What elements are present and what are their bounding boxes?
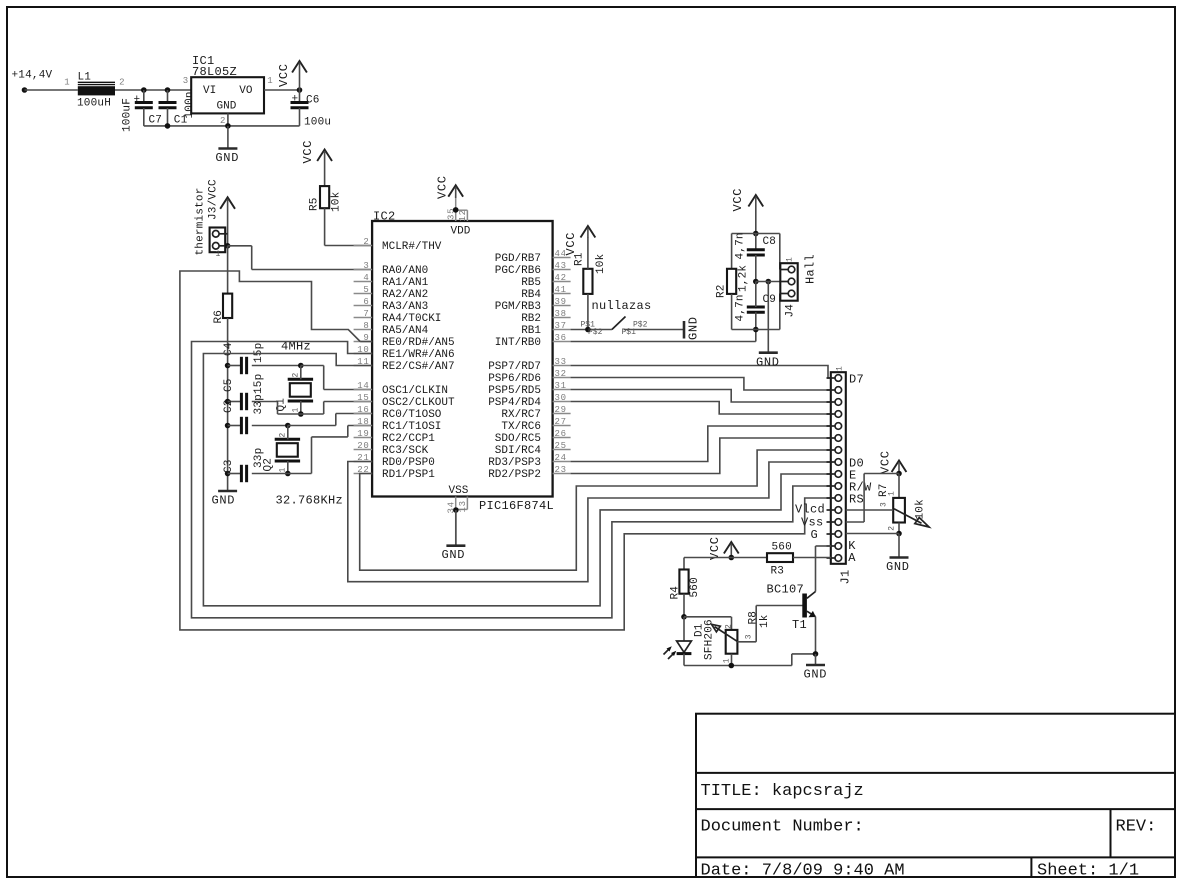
svg-text:C6: C6 — [306, 95, 320, 107]
svg-text:42: 42 — [555, 273, 567, 283]
wire net RE0 pin9 staircase to J1 RS — [180, 271, 831, 630]
junction VCC backlight — [729, 555, 735, 561]
wire R4 bottom to R8 top — [684, 616, 731, 618]
node +14,4V input terminal — [22, 87, 28, 93]
wire PSP5 pin31 to J1 D5 — [571, 390, 831, 403]
J1 pin 11 — [835, 495, 842, 502]
J1 pin 13 — [835, 519, 842, 526]
svg-text:10k: 10k — [331, 191, 343, 212]
IC2 pin 19 RC2/CCP1 — [354, 437, 373, 439]
IC2 pin 11 RE2/CS#/AN7 — [354, 365, 373, 367]
svg-text:R6: R6 — [213, 310, 225, 324]
svg-text:L1: L1 — [78, 72, 92, 84]
svg-text:Vlcd: Vlcd — [795, 503, 825, 517]
svg-text:1: 1 — [836, 366, 845, 371]
svg-text:33: 33 — [555, 357, 567, 367]
svg-text:3: 3 — [183, 76, 189, 86]
svg-text:RD3/PSP3: RD3/PSP3 — [488, 457, 541, 469]
resistor R6 — [223, 294, 232, 318]
svg-text:560: 560 — [689, 577, 701, 597]
IC2 pin 27 TX/RC6 — [553, 425, 571, 427]
IC2 pin 33 PSP7/RD7 — [553, 365, 571, 367]
junction R1/RB1 — [585, 327, 591, 333]
svg-text:INT/RB0: INT/RB0 — [495, 337, 541, 349]
wire VCC rail to R3 — [684, 557, 767, 559]
capacitor C1 100n — [167, 90, 169, 102]
VCC symbol above R1 — [581, 226, 596, 238]
junction J3 pin2 — [225, 243, 231, 249]
svg-text:26: 26 — [555, 429, 567, 439]
net label J3/VCC with arrow — [220, 197, 235, 209]
svg-text:VCC: VCC — [301, 140, 315, 164]
wire IC1 VO to C6/VCC node — [264, 89, 300, 91]
IC2 pin 32 PSP6/RD6 — [553, 377, 571, 379]
svg-text:RA5/AN4: RA5/AN4 — [382, 325, 429, 337]
J1 pin 7 — [835, 447, 842, 454]
svg-text:2: 2 — [888, 526, 897, 531]
svg-text:RB1: RB1 — [521, 325, 541, 337]
svg-text:10k: 10k — [595, 253, 607, 274]
IC2 pin 42 RB5 — [553, 281, 571, 283]
resistor R5 10k — [320, 186, 329, 208]
svg-text:1k: 1k — [759, 614, 771, 628]
svg-text:VO: VO — [239, 85, 253, 97]
svg-text:1: 1 — [64, 78, 70, 88]
svg-text:P$2: P$2 — [588, 328, 603, 337]
IC2 pin 8 RA5/AN4 — [354, 329, 373, 331]
svg-text:P$1: P$1 — [622, 328, 637, 337]
svg-text:RC3/SCK: RC3/SCK — [382, 445, 429, 457]
svg-text:RA4/T0CKI: RA4/T0CKI — [382, 313, 441, 325]
J1 pin 10 — [835, 483, 842, 490]
svg-text:PSP4/RD4: PSP4/RD4 — [488, 397, 541, 409]
svg-text:Date: 7/8/09 9:40 AM: Date: 7/8/09 9:40 AM — [701, 862, 905, 881]
IC2 pin 38 RB2 — [553, 317, 571, 319]
svg-text:4: 4 — [363, 273, 369, 283]
capacitor C8 4,7n — [755, 234, 757, 250]
svg-text:PIC16F874L: PIC16F874L — [479, 499, 554, 513]
resistor R4 560 — [683, 558, 685, 570]
svg-text:OSC1/CLKIN: OSC1/CLKIN — [382, 385, 448, 397]
svg-text:1: 1 — [723, 658, 732, 663]
svg-text:36: 36 — [555, 333, 567, 343]
J1 pin 1 — [835, 375, 842, 382]
IC2 pin 5 RA2/AN2 — [354, 293, 373, 295]
svg-text:12: 12 — [458, 209, 468, 221]
wire bottom rail D1/R8 — [684, 665, 792, 667]
capacitor C3 33p — [228, 473, 242, 475]
capacitor C9 4,7n — [747, 306, 765, 309]
svg-text:33p: 33p — [253, 448, 265, 468]
VCC symbol backlight — [724, 542, 739, 554]
svg-text:VCC: VCC — [436, 175, 450, 199]
wire PSP7 pin33 to J1 D7 — [571, 366, 831, 379]
svg-text:C5: C5 — [223, 378, 235, 392]
IC2 pin 4 RA1/AN1 — [354, 281, 373, 283]
J1 pin 4 — [835, 411, 842, 418]
IC2 pin 2 MCLR#/THV — [354, 245, 373, 247]
svg-text:C8: C8 — [763, 236, 777, 248]
svg-text:2: 2 — [220, 116, 226, 126]
svg-text:43: 43 — [555, 261, 567, 271]
VCC symbol hall — [748, 195, 763, 207]
svg-text:RD1/PSP1: RD1/PSP1 — [382, 469, 435, 481]
svg-text:2: 2 — [119, 78, 125, 88]
svg-text:R1: R1 — [574, 252, 586, 266]
svg-text:OSC2/CLKOUT: OSC2/CLKOUT — [382, 397, 455, 409]
IC2 pin 3 RA0/AN0 — [354, 269, 373, 271]
wire J1 K to T1 collector — [816, 545, 831, 547]
VCC symbol above R7 — [892, 461, 907, 473]
wire RD2 pin23 to J1 D2 — [571, 438, 831, 474]
wire C5 jog to Q1 bottom row — [277, 402, 279, 415]
svg-text:C7: C7 — [149, 115, 163, 127]
svg-text:thermistor: thermistor — [195, 187, 207, 255]
svg-text:A: A — [848, 551, 856, 565]
wire RB1 pin37 to switch — [571, 329, 612, 331]
J1 pin 9 — [835, 471, 842, 478]
svg-text:32.768KHz: 32.768KHz — [276, 494, 344, 508]
junction hall mid node — [753, 279, 759, 285]
svg-text:PSP6/RD6: PSP6/RD6 — [488, 373, 541, 385]
svg-text:PGM/RB3: PGM/RB3 — [495, 301, 541, 313]
svg-text:PGC/RB6: PGC/RB6 — [495, 265, 541, 277]
J1 pin 3 — [835, 399, 842, 406]
wire hall bottom node — [732, 329, 780, 331]
wire R5 to MCLR pin 2 — [324, 208, 326, 245]
svg-text:100u: 100u — [304, 117, 331, 129]
wire J3 pin2 to RA0 pin 3 — [228, 245, 252, 247]
svg-text:33p: 33p — [253, 394, 265, 414]
svg-text:32: 32 — [555, 369, 567, 379]
svg-text:15: 15 — [357, 393, 369, 403]
svg-text:RX/RC7: RX/RC7 — [501, 409, 541, 421]
svg-text:GND: GND — [217, 101, 237, 113]
svg-text:2: 2 — [725, 624, 734, 629]
svg-text:2: 2 — [292, 373, 301, 378]
junction GND stem — [225, 123, 231, 129]
junction R7 pin2/G — [896, 531, 902, 537]
J1 pin 14 — [835, 531, 842, 538]
IC2 pin 6 RA3/AN3 — [354, 305, 373, 307]
svg-text:VSS: VSS — [449, 485, 469, 497]
photodiode D1 SFH206 — [683, 617, 685, 641]
svg-text:15p: 15p — [253, 374, 265, 394]
svg-text:IC2: IC2 — [373, 210, 396, 224]
svg-text:24: 24 — [555, 453, 567, 463]
svg-text:5: 5 — [363, 285, 369, 295]
svg-text:RE1/WR#/AN6: RE1/WR#/AN6 — [382, 349, 455, 361]
IC2 pin 43 PGC/RB6 — [553, 269, 571, 271]
transistor T1 BC107 — [802, 594, 807, 618]
svg-text:GND: GND — [212, 494, 236, 508]
J1 pin 15 — [835, 543, 842, 550]
svg-text:3: 3 — [880, 502, 889, 507]
J1 pin 6 — [835, 435, 842, 442]
wire Vss to VCC — [846, 521, 864, 523]
svg-text:RA3/AN3: RA3/AN3 — [382, 301, 428, 313]
IC2 pin 21 RD0/PSP0 — [354, 461, 373, 463]
resistor R2 1,2k — [731, 234, 733, 269]
ground symbol under R7 — [898, 534, 900, 558]
svg-text:PGD/RB7: PGD/RB7 — [495, 253, 541, 265]
ground symbol hall — [759, 351, 778, 354]
junction R7 VCC — [896, 471, 902, 477]
svg-text:VI: VI — [203, 85, 216, 97]
J1 pin 2 — [835, 387, 842, 394]
svg-text:3: 3 — [363, 261, 369, 271]
ground symbol crystal rail — [227, 490, 229, 493]
svg-text:R2: R2 — [716, 284, 728, 298]
ground stem hall — [767, 282, 769, 353]
svg-text:RE0/RD#/AN5: RE0/RD#/AN5 — [382, 337, 455, 349]
wire PSP4 pin30 to J1 D4 — [571, 402, 831, 415]
svg-text:1: 1 — [786, 257, 795, 262]
svg-text:RA2/AN2: RA2/AN2 — [382, 289, 428, 301]
svg-text:78L05Z: 78L05Z — [192, 65, 237, 79]
svg-text:100uH: 100uH — [77, 98, 111, 110]
connector J1 — [831, 372, 846, 564]
svg-text:J3/VCC: J3/VCC — [208, 179, 220, 220]
crystal Q1 — [288, 378, 313, 381]
J1 pin 12 — [835, 507, 842, 514]
svg-text:GND: GND — [886, 560, 910, 574]
svg-text:10k: 10k — [915, 499, 927, 520]
svg-text:MCLR#/THV: MCLR#/THV — [382, 241, 442, 253]
IC2 pin 24 RD3/PSP3 — [553, 461, 571, 463]
IC2 pin 23 RD2/PSP2 — [553, 473, 571, 475]
junction hall mid node 2 — [766, 279, 772, 285]
VCC symbol above R5 — [317, 150, 332, 162]
title block frame — [696, 714, 1175, 877]
J1 pin 8 — [835, 459, 842, 466]
svg-text:RB4: RB4 — [521, 289, 541, 301]
connector J3 — [210, 228, 226, 253]
IC2 pin 9 RE0/RD#/AN5 — [354, 341, 373, 343]
junction emitter/GND — [813, 651, 819, 657]
connector J4 Hall — [780, 263, 797, 301]
IC2 pin 36 INT/RB0 — [553, 341, 571, 343]
svg-text:J1: J1 — [839, 569, 853, 584]
svg-text:REV:: REV: — [1116, 818, 1157, 837]
svg-text:+: + — [134, 94, 141, 106]
trimmer R8 1k — [731, 617, 733, 630]
svg-text:VCC: VCC — [879, 450, 893, 474]
junction hall top node — [753, 231, 759, 237]
svg-text:560: 560 — [772, 542, 792, 554]
svg-text:Document Number:: Document Number: — [701, 818, 864, 837]
wire C4 row to OSC1 jog — [301, 365, 324, 367]
wire net RD1 pin22 to J1 D1 — [360, 450, 831, 570]
svg-text:RC2/CCP1: RC2/CCP1 — [382, 433, 435, 445]
svg-text:37: 37 — [555, 321, 567, 331]
IC2 pin 31 PSP5/RD5 — [553, 389, 571, 391]
wire J4 pin3 to bottom node — [779, 294, 781, 330]
svg-text:31: 31 — [555, 381, 567, 391]
svg-text:2: 2 — [363, 237, 369, 247]
svg-text:J4: J4 — [785, 304, 797, 318]
svg-text:1: 1 — [267, 76, 273, 86]
svg-text:30: 30 — [555, 393, 567, 403]
wire hall top node — [732, 233, 780, 235]
junction rail C3 — [225, 471, 231, 477]
IC1 78L05Z voltage regulator — [191, 77, 264, 113]
IC2 pin 10 RE1/WR#/AN6 — [354, 353, 373, 355]
svg-text:8: 8 — [363, 321, 369, 331]
svg-text:GND: GND — [215, 151, 239, 165]
svg-text:GND: GND — [804, 668, 828, 682]
wire ground rail under IC1 — [144, 125, 300, 127]
junction C7 top — [141, 87, 147, 93]
svg-text:C2: C2 — [223, 399, 235, 413]
svg-text:TX/RC6: TX/RC6 — [501, 421, 541, 433]
wire G to R7 pin2 — [846, 533, 899, 535]
wire top node to J4 pin1 — [779, 234, 781, 270]
svg-text:GND: GND — [687, 316, 701, 340]
capacitor C4 15p — [228, 365, 242, 367]
IC2 pin 7 RA4/T0CKI — [354, 317, 373, 319]
svg-text:1: 1 — [216, 250, 221, 259]
J1 pin 16 — [835, 555, 842, 562]
svg-text:20: 20 — [357, 441, 369, 451]
svg-text:13: 13 — [458, 500, 468, 512]
IC2 pin 14 OSC1/CLKIN — [354, 389, 373, 391]
capacitor C2 33p — [228, 425, 242, 427]
VCC symbol above C6 — [292, 61, 307, 73]
svg-text:+14,4V: +14,4V — [12, 70, 53, 82]
junction VDD — [453, 207, 459, 213]
svg-text:27: 27 — [555, 417, 567, 427]
svg-text:41: 41 — [555, 285, 567, 295]
svg-text:VDD: VDD — [451, 226, 471, 238]
svg-text:RB2: RB2 — [521, 313, 541, 325]
svg-text:RB5: RB5 — [521, 277, 541, 289]
svg-text:D7: D7 — [849, 373, 864, 387]
wire L1 to IC1 VI — [115, 89, 191, 91]
svg-text:29: 29 — [555, 405, 567, 415]
J1 pin 5 — [835, 423, 842, 430]
svg-text:1,2k: 1,2k — [738, 265, 750, 292]
svg-text:T1: T1 — [792, 618, 807, 632]
svg-text:C3: C3 — [223, 459, 235, 473]
svg-text:GND: GND — [756, 356, 780, 370]
svg-text:TITLE: kapcsrajz: TITLE: kapcsrajz — [701, 782, 864, 801]
junction C4/Q1 top — [298, 363, 304, 369]
wire bottom rail to emitter node — [791, 654, 793, 666]
junction rail C2 — [225, 423, 231, 429]
svg-text:R3: R3 — [771, 566, 785, 578]
wire net RE1 pin10 to J1 R/W — [192, 342, 831, 618]
resistor R3 560 — [767, 553, 793, 562]
svg-text:VCC: VCC — [564, 232, 578, 256]
resistor R1 10k — [583, 269, 592, 294]
wire J3 pin2 down to R6 — [227, 246, 229, 294]
junction hall bottom node — [753, 327, 759, 333]
svg-text:RD2/PSP2: RD2/PSP2 — [488, 469, 541, 481]
IC2 pin 44 PGD/RB7 — [553, 257, 571, 259]
svg-text:39: 39 — [555, 297, 567, 307]
svg-text:23: 23 — [555, 465, 567, 475]
wire net RD0 pin21 to J1 D0 — [348, 462, 831, 582]
svg-text:nullazas: nullazas — [592, 299, 652, 313]
junction rail C5 — [225, 399, 231, 405]
wire R3 to J1 A — [793, 557, 831, 559]
IC2 VDD pin stubs 35/12 — [455, 196, 457, 221]
svg-text:Hall: Hall — [804, 254, 818, 284]
svg-text:7: 7 — [363, 309, 369, 319]
IC2 pin 25 SDI/RC4 — [553, 449, 571, 451]
IC2 pin 16 RC0/T1OSO — [354, 413, 373, 415]
junction C1 bottom — [165, 123, 171, 129]
svg-text:18: 18 — [357, 417, 369, 427]
svg-text:6: 6 — [363, 297, 369, 307]
IC2 pin 39 PGM/RB3 — [553, 305, 571, 307]
svg-text:RE2/CS#/AN7: RE2/CS#/AN7 — [382, 361, 455, 373]
svg-text:4,7n: 4,7n — [735, 232, 747, 259]
VCC symbol above IC2 — [448, 185, 463, 197]
crystal Q2 — [275, 438, 300, 441]
wire INT/RB0 pin36 to hall ground node — [571, 341, 756, 343]
svg-text:R4: R4 — [670, 586, 682, 600]
wire PSP6 pin32 to J1 D6 — [571, 378, 831, 391]
wire C2 row to RC0 pin 16 jog — [288, 425, 336, 427]
IC2 pin 18 RC1/T1OSI — [354, 425, 373, 427]
junction C2/Q2 top — [285, 423, 291, 429]
svg-text:PSP5/RD5: PSP5/RD5 — [488, 385, 541, 397]
wire RD3 pin24 to J1 D3 — [571, 426, 831, 462]
svg-text:4,7n: 4,7n — [735, 294, 747, 321]
IC1 pin2 stub to rail — [227, 113, 229, 126]
IC2 pin 37 RB1 — [553, 329, 571, 331]
junction Q2 bottom — [285, 471, 291, 477]
junction VO node — [297, 87, 303, 93]
svg-text:1: 1 — [888, 491, 897, 496]
IC2 pin 22 RD1/PSP1 — [354, 473, 373, 475]
svg-text:RC0/T1OSO: RC0/T1OSO — [382, 409, 442, 421]
IC2 box PIC16F874L — [372, 221, 552, 497]
junction R8 bottom — [729, 663, 735, 669]
svg-text:R8: R8 — [748, 611, 760, 625]
svg-text:25: 25 — [555, 441, 567, 451]
IC2 pin 20 RC3/SCK — [354, 449, 373, 451]
ground symbol right of switch — [683, 321, 686, 339]
svg-text:VCC: VCC — [708, 536, 722, 560]
IC2 VSS pin stubs 34/13 — [455, 497, 457, 546]
svg-text:RA0/AN0: RA0/AN0 — [382, 265, 428, 277]
ground symbol VSS — [455, 510, 457, 546]
wire Vlcd to R7 wiper — [846, 509, 893, 511]
svg-text:G: G — [810, 528, 818, 542]
junction VSS — [453, 507, 459, 513]
IC2 pin 30 PSP4/RD4 — [553, 401, 571, 403]
IC2 pin 15 OSC2/CLKOUT — [354, 401, 373, 403]
svg-text:2: 2 — [279, 433, 288, 438]
svg-text:RS: RS — [849, 493, 864, 507]
svg-text:14: 14 — [357, 381, 369, 391]
wire R6 to crystal ground rail — [227, 318, 229, 491]
junction C1 top — [165, 87, 171, 93]
wire Q2 bottom to RC1 pin 18 — [288, 473, 312, 475]
svg-text:BC107: BC107 — [767, 583, 805, 597]
wire R8 wiper to T1 base — [737, 641, 756, 643]
wire net RE2 pin11 to J1 E — [203, 354, 830, 606]
capacitor C5 15p — [228, 401, 242, 403]
svg-text:R5: R5 — [309, 197, 321, 211]
junction rail C4 — [225, 363, 231, 369]
svg-text:VCC: VCC — [277, 63, 291, 87]
ground symbol T1 emitter — [815, 654, 817, 665]
svg-text:PSP7/RD7: PSP7/RD7 — [488, 361, 541, 373]
